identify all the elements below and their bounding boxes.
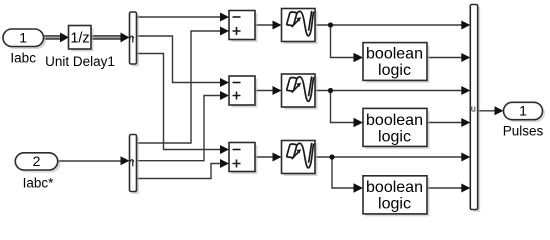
svg-text:Iabc*: Iabc* [23, 176, 55, 191]
svg-text:1: 1 [519, 103, 527, 119]
svg-text:1: 1 [19, 30, 27, 46]
svg-text:boolean: boolean [366, 112, 423, 129]
svg-text:u: u [471, 104, 476, 114]
svg-text:Pulses: Pulses [503, 124, 544, 139]
svg-text:boolean: boolean [366, 179, 423, 196]
svg-text:logic: logic [378, 128, 411, 145]
svg-text:2: 2 [33, 153, 41, 169]
svg-text:logic: logic [378, 62, 411, 79]
svg-text:logic: logic [378, 196, 411, 213]
svg-text:Iabc: Iabc [10, 50, 36, 65]
svg-text:Unit Delay1: Unit Delay1 [45, 54, 115, 69]
svg-text:1/z: 1/z [70, 31, 89, 47]
svg-text:boolean: boolean [366, 46, 423, 63]
